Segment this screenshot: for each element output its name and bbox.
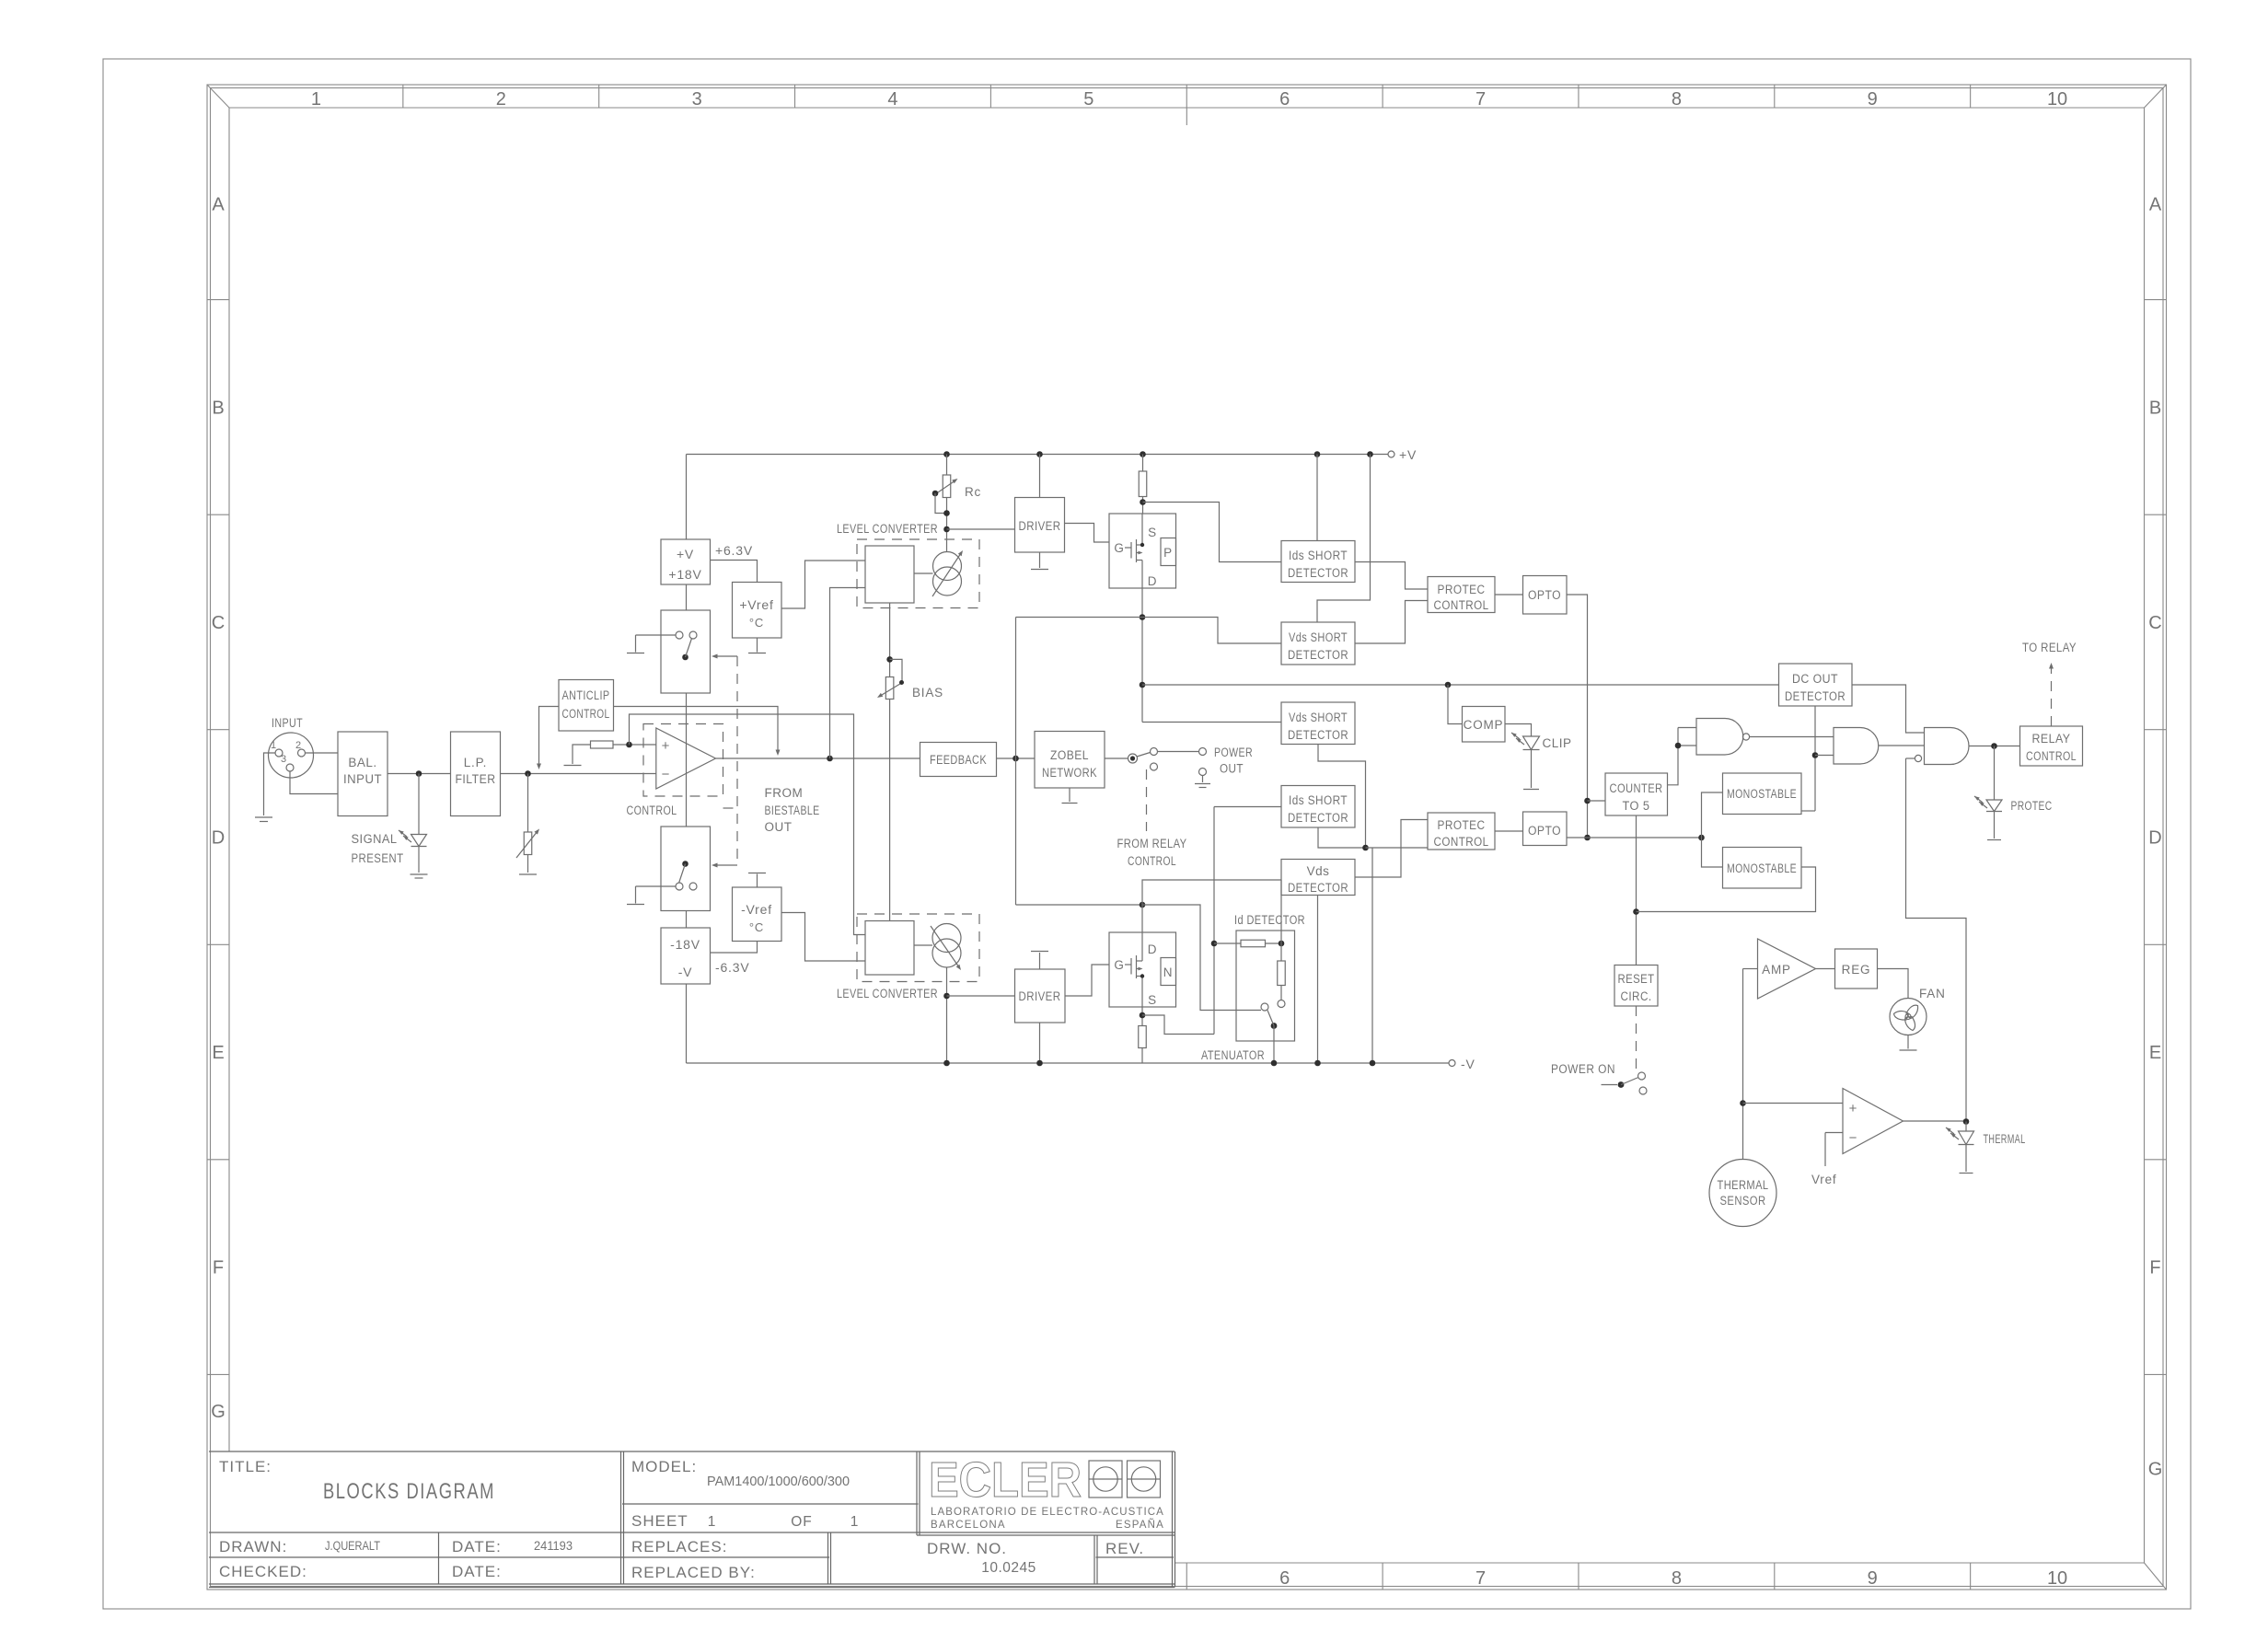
svg-text:-Vref: -Vref [741, 902, 772, 917]
svg-text:DETECTOR: DETECTOR [1288, 566, 1348, 580]
svg-text:E: E [212, 1043, 224, 1063]
svg-text:PROTEC: PROTEC [1438, 818, 1486, 832]
svg-text:2: 2 [496, 89, 506, 110]
svg-text:Ids SHORT: Ids SHORT [1289, 793, 1348, 807]
svg-text:THERMAL: THERMAL [1718, 1178, 1769, 1192]
svg-text:DETECTOR: DETECTOR [1288, 728, 1348, 742]
svg-text:BLOCKS DIAGRAM: BLOCKS DIAGRAM [323, 1479, 495, 1504]
svg-text:POWER: POWER [1214, 746, 1253, 759]
svg-text:S: S [1148, 993, 1157, 1007]
svg-text:D: D [212, 828, 225, 849]
svg-text:G: G [1114, 541, 1124, 555]
svg-text:OF: OF [791, 1514, 813, 1530]
svg-text:+: + [662, 738, 670, 754]
svg-text:REG: REG [1842, 963, 1871, 977]
svg-text:F: F [213, 1258, 224, 1278]
svg-text:CONTROL: CONTROL [627, 804, 677, 817]
svg-text:7: 7 [1475, 89, 1486, 110]
svg-text:FROM: FROM [765, 786, 804, 800]
svg-text:SIGNAL: SIGNAL [352, 832, 398, 846]
svg-text:°C: °C [749, 920, 764, 934]
svg-text:241193: 241193 [534, 1539, 573, 1553]
svg-text:+: + [1849, 1101, 1857, 1116]
svg-text:DRIVER: DRIVER [1019, 989, 1061, 1003]
svg-text:+6.3V: +6.3V [715, 543, 753, 558]
svg-text:+V: +V [677, 547, 694, 561]
svg-text:FEEDBACK: FEEDBACK [930, 753, 987, 767]
svg-text:4: 4 [887, 89, 897, 110]
svg-text:DETECTOR: DETECTOR [1288, 811, 1348, 825]
svg-text:TITLE:: TITLE: [219, 1458, 272, 1475]
svg-text:A: A [212, 194, 225, 214]
svg-text:1: 1 [311, 89, 321, 110]
svg-text:E: E [2149, 1043, 2161, 1063]
svg-text:SENSOR: SENSOR [1720, 1194, 1766, 1208]
svg-text:MODEL:: MODEL: [631, 1458, 697, 1475]
svg-text:NETWORK: NETWORK [1042, 766, 1097, 780]
svg-text:DATE:: DATE: [452, 1538, 502, 1555]
svg-text:3: 3 [281, 754, 286, 765]
svg-text:MONOSTABLE: MONOSTABLE [1727, 787, 1797, 801]
svg-text:S: S [1148, 526, 1157, 539]
svg-text:CIRC.: CIRC. [1621, 989, 1652, 1003]
svg-text:7: 7 [1475, 1568, 1486, 1589]
svg-text:9: 9 [1868, 1568, 1878, 1589]
svg-text:-V: -V [678, 965, 693, 979]
svg-text:DRW. NO.: DRW. NO. [927, 1540, 1007, 1557]
svg-text:G: G [211, 1402, 226, 1422]
svg-text:COUNTER: COUNTER [1610, 781, 1663, 795]
svg-text:CONTROL: CONTROL [562, 707, 610, 721]
svg-text:9: 9 [1868, 89, 1878, 110]
svg-text:Vds SHORT: Vds SHORT [1289, 630, 1348, 644]
svg-text:B: B [212, 398, 224, 418]
svg-text:Rc: Rc [965, 485, 981, 499]
svg-text:6: 6 [1279, 1568, 1290, 1589]
svg-text:-6.3V: -6.3V [715, 960, 749, 975]
svg-text:PRESENT: PRESENT [352, 851, 404, 865]
svg-text:COMP: COMP [1464, 718, 1504, 732]
svg-text:+Vref: +Vref [739, 597, 773, 612]
svg-text:°C: °C [749, 616, 764, 630]
svg-text:TO RELAY: TO RELAY [2022, 641, 2077, 654]
svg-text:Ids SHORT: Ids SHORT [1289, 549, 1348, 562]
svg-text:10: 10 [2047, 1568, 2067, 1589]
svg-text:INPUT: INPUT [343, 772, 382, 786]
svg-text:D: D [1148, 942, 1158, 956]
svg-text:CONTROL: CONTROL [1434, 835, 1489, 849]
svg-text:C: C [2148, 613, 2161, 633]
svg-text:OPTO: OPTO [1528, 588, 1561, 602]
svg-text:BIAS: BIAS [912, 686, 943, 700]
svg-text:ESPAÑA: ESPAÑA [1116, 1519, 1164, 1531]
svg-text:−: − [662, 767, 670, 782]
svg-text:8: 8 [1672, 1568, 1682, 1589]
svg-text:8: 8 [1672, 89, 1682, 110]
svg-text:DETECTOR: DETECTOR [1785, 689, 1846, 703]
svg-text:−: − [1849, 1130, 1857, 1146]
svg-text:-V: -V [1461, 1057, 1475, 1071]
svg-text:1: 1 [708, 1514, 716, 1530]
svg-text:D: D [2148, 828, 2161, 849]
svg-text:C: C [212, 613, 225, 633]
svg-text:+V: +V [1399, 447, 1417, 462]
svg-text:F: F [2149, 1258, 2160, 1278]
svg-text:CLIP: CLIP [1543, 736, 1572, 750]
svg-text:5: 5 [1083, 89, 1093, 110]
svg-text:AMP: AMP [1762, 963, 1791, 977]
svg-text:FILTER: FILTER [456, 772, 496, 786]
svg-text:J.QUERALT: J.QUERALT [325, 1539, 380, 1553]
svg-text:DETECTOR: DETECTOR [1288, 881, 1348, 895]
svg-text:BAL.: BAL. [348, 756, 376, 769]
svg-text:OPTO: OPTO [1528, 824, 1561, 838]
svg-text:PROTEC: PROTEC [1438, 583, 1486, 596]
svg-text:SHEET: SHEET [631, 1512, 688, 1530]
svg-text:REV.: REV. [1105, 1540, 1144, 1557]
svg-text:6: 6 [1279, 89, 1290, 110]
svg-text:DRAWN:: DRAWN: [219, 1538, 287, 1555]
svg-text:REPLACED BY:: REPLACED BY: [631, 1564, 756, 1581]
svg-text:LEVEL CONVERTER: LEVEL CONVERTER [837, 987, 938, 1000]
svg-text:G: G [1114, 958, 1124, 972]
svg-text:N: N [1163, 966, 1174, 979]
svg-text:DATE:: DATE: [452, 1563, 502, 1580]
svg-text:Vref: Vref [1811, 1173, 1836, 1186]
svg-text:1: 1 [271, 740, 276, 751]
svg-text:DETECTOR: DETECTOR [1288, 648, 1348, 662]
svg-text:RESET: RESET [1618, 972, 1655, 986]
svg-text:INPUT: INPUT [272, 716, 303, 730]
svg-text:10: 10 [2047, 89, 2067, 110]
svg-text:CONTROL: CONTROL [1434, 598, 1489, 612]
svg-text:DRIVER: DRIVER [1019, 519, 1061, 533]
svg-text:THERMAL: THERMAL [1984, 1132, 2026, 1146]
svg-text:D: D [1148, 574, 1158, 588]
svg-text:-18V: -18V [670, 937, 700, 952]
svg-text:B: B [2149, 398, 2161, 418]
svg-text:ECLER: ECLER [929, 1452, 1082, 1508]
svg-text:FAN: FAN [1919, 987, 1946, 1000]
svg-text:OUT: OUT [1220, 762, 1244, 776]
svg-text:P: P [1163, 546, 1173, 560]
svg-text:3: 3 [692, 89, 702, 110]
svg-text:1: 1 [850, 1514, 859, 1530]
svg-text:L.P.: L.P. [464, 756, 487, 769]
svg-text:10.0245: 10.0245 [981, 1560, 1036, 1576]
svg-text:RELAY: RELAY [2032, 732, 2071, 746]
svg-text:FROM RELAY: FROM RELAY [1117, 837, 1187, 850]
svg-text:CHECKED:: CHECKED: [219, 1563, 307, 1580]
svg-text:PROTEC: PROTEC [2011, 799, 2053, 813]
svg-text:BIESTABLE: BIESTABLE [765, 804, 820, 817]
svg-text:ZOBEL: ZOBEL [1050, 748, 1089, 762]
svg-text:MONOSTABLE: MONOSTABLE [1727, 861, 1797, 875]
svg-text:DC OUT: DC OUT [1792, 672, 1838, 686]
svg-text:CONTROL: CONTROL [2026, 749, 2077, 763]
svg-text:LEVEL CONVERTER: LEVEL CONVERTER [837, 522, 938, 536]
svg-text:ATENUATOR: ATENUATOR [1201, 1048, 1265, 1062]
svg-text:Id DETECTOR: Id DETECTOR [1234, 913, 1305, 927]
svg-text:TO 5: TO 5 [1623, 799, 1650, 813]
svg-text:G: G [2148, 1460, 2163, 1480]
svg-text:PAM1400/1000/600/300: PAM1400/1000/600/300 [707, 1474, 850, 1489]
svg-text:BARCELONA: BARCELONA [931, 1520, 1006, 1531]
svg-text:ANTICLIP: ANTICLIP [562, 688, 610, 702]
svg-text:LABORATORIO DE ELECTRO-ACUST: LABORATORIO DE ELECTRO-ACUSTICA [931, 1507, 1164, 1518]
svg-text:REPLACES:: REPLACES: [631, 1538, 727, 1555]
svg-text:A: A [2149, 194, 2162, 214]
svg-text:+18V: +18V [668, 567, 701, 582]
svg-text:CONTROL: CONTROL [1128, 854, 1176, 868]
svg-text:2: 2 [295, 740, 301, 751]
svg-text:Vds: Vds [1307, 864, 1330, 878]
svg-text:POWER ON: POWER ON [1551, 1062, 1615, 1076]
svg-text:OUT: OUT [765, 820, 793, 834]
svg-text:Vds SHORT: Vds SHORT [1289, 711, 1348, 724]
